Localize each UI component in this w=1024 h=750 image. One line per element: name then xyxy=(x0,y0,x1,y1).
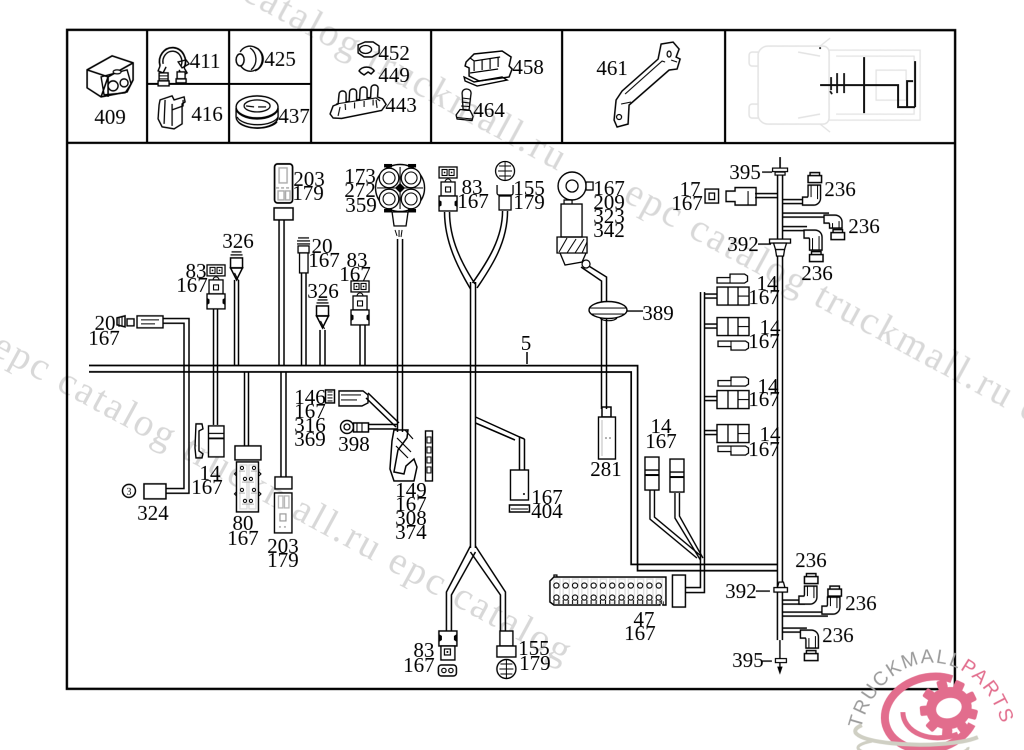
svg-text:411: 411 xyxy=(190,49,221,73)
svg-text:409: 409 xyxy=(94,105,126,129)
svg-text:179: 179 xyxy=(519,651,551,675)
svg-text:167: 167 xyxy=(671,191,703,215)
svg-text:179: 179 xyxy=(513,190,545,214)
svg-text:236: 236 xyxy=(795,548,827,572)
svg-text:437: 437 xyxy=(278,104,310,128)
svg-text:236: 236 xyxy=(824,177,856,201)
svg-text:443: 443 xyxy=(385,93,417,117)
svg-text:167: 167 xyxy=(645,429,677,453)
svg-text:395: 395 xyxy=(732,648,764,672)
svg-text:369: 369 xyxy=(294,427,326,451)
svg-text:179: 179 xyxy=(292,181,324,205)
svg-text:167: 167 xyxy=(176,273,208,297)
svg-text:236: 236 xyxy=(801,261,833,285)
svg-text:398: 398 xyxy=(338,432,370,456)
svg-text:395: 395 xyxy=(729,160,761,184)
svg-text:167: 167 xyxy=(88,326,120,350)
svg-text:167: 167 xyxy=(748,285,780,309)
svg-text:326: 326 xyxy=(307,279,339,303)
svg-text:167: 167 xyxy=(191,475,223,499)
svg-text:404: 404 xyxy=(531,499,563,523)
svg-text:425: 425 xyxy=(264,47,296,71)
svg-text:167: 167 xyxy=(748,387,780,411)
svg-text:167: 167 xyxy=(624,621,656,645)
svg-text:167: 167 xyxy=(748,437,780,461)
svg-text:167: 167 xyxy=(308,248,340,272)
svg-text:392: 392 xyxy=(727,232,759,256)
svg-text:236: 236 xyxy=(822,623,854,647)
svg-text:416: 416 xyxy=(191,102,223,126)
svg-text:5: 5 xyxy=(521,331,532,355)
svg-text:461: 461 xyxy=(596,56,628,80)
svg-text:3: 3 xyxy=(126,487,131,498)
svg-text:458: 458 xyxy=(512,55,544,79)
svg-text:236: 236 xyxy=(848,214,880,238)
svg-text:342: 342 xyxy=(593,218,625,242)
svg-text:326: 326 xyxy=(222,229,254,253)
svg-text:324: 324 xyxy=(137,501,169,525)
svg-text:281: 281 xyxy=(590,457,622,481)
svg-text:389: 389 xyxy=(642,301,674,325)
svg-text:236: 236 xyxy=(845,591,877,615)
svg-text:374: 374 xyxy=(395,520,427,544)
svg-text:167: 167 xyxy=(403,653,435,677)
svg-text:449: 449 xyxy=(378,63,410,87)
svg-text:179: 179 xyxy=(267,548,299,572)
svg-text:167: 167 xyxy=(339,262,371,286)
svg-text:167: 167 xyxy=(457,189,489,213)
svg-text:392: 392 xyxy=(725,579,757,603)
svg-text:167: 167 xyxy=(748,329,780,353)
svg-text:452: 452 xyxy=(378,41,410,65)
svg-text:359: 359 xyxy=(345,193,377,217)
svg-text:167: 167 xyxy=(227,526,259,550)
svg-text:464: 464 xyxy=(473,98,505,122)
